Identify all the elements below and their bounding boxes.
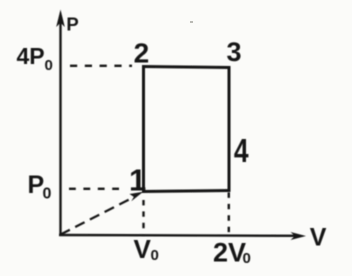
process 2-3 (top edge of cycle rectangle)	[142, 67, 231, 68]
svg-text:2V: 2V	[213, 238, 246, 268]
svg-text:V: V	[134, 234, 152, 264]
svg-text:1: 1	[129, 162, 146, 197]
svg-text:0: 0	[151, 247, 159, 264]
svg-text:4P: 4P	[17, 43, 45, 69]
y-axis (P axis)	[59, 22, 61, 235]
svg-text:0: 0	[45, 57, 53, 74]
svg-text:4: 4	[234, 133, 249, 169]
svg-text:3: 3	[227, 37, 242, 67]
process 1-2 (left edge of cycle rectangle)	[142, 67, 145, 192]
scan speckle	[190, 21, 193, 23]
diagonal dashed arrow from origin toward state 1	[61, 196, 137, 235]
svg-text:2: 2	[134, 37, 150, 68]
x-axis arrowhead	[291, 232, 307, 240]
diagonal arrowhead at state 1	[130, 192, 144, 201]
process 4-1 (bottom edge of cycle rectangle)	[142, 191, 231, 192]
svg-text:0: 0	[243, 250, 251, 267]
y-axis arrowhead	[56, 10, 65, 28]
dashed guide from P0 level to state 1	[69, 188, 124, 190]
dashed vertical guide V0 below state 1	[142, 200, 144, 236]
x-axis (V axis)	[59, 234, 298, 237]
dashed guide from 4P0 level to state 2	[70, 65, 132, 67]
dashed vertical guide 2V0 below state 4	[228, 193, 230, 237]
svg-text:P: P	[66, 13, 78, 34]
process 3-4 (right edge of cycle rectangle)	[228, 67, 231, 192]
svg-text:0: 0	[43, 186, 52, 203]
svg-text:V: V	[310, 223, 327, 251]
